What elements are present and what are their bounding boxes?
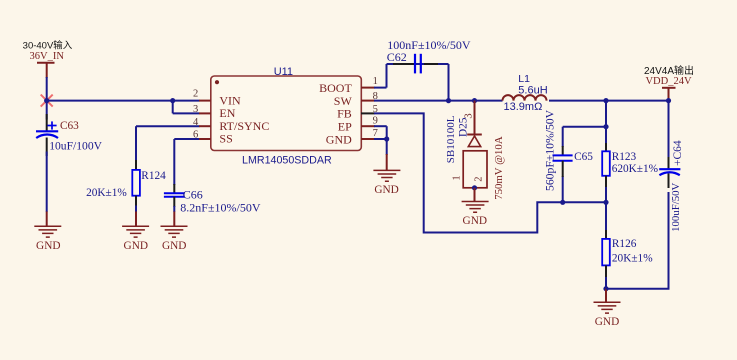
resistor R124 — [86, 160, 166, 207]
junction VIN/EN — [170, 98, 175, 103]
svg-text:D25: D25 — [458, 117, 470, 137]
svg-text:LMR14050SDDAR: LMR14050SDDAR — [242, 154, 332, 166]
junction D25 bottom — [472, 185, 477, 190]
junction C65 bottom — [560, 200, 565, 205]
junction VDD/C64 — [666, 98, 671, 103]
svg-text:3: 3 — [464, 113, 475, 118]
wire R126 chain — [605, 202, 607, 288]
svg-text:750mV @10A: 750mV @10A — [493, 136, 505, 200]
wire BOOT riser — [374, 64, 387, 88]
svg-text:2: 2 — [193, 89, 198, 100]
svg-text:R123: R123 — [612, 151, 637, 163]
pin 1 BOOT — [361, 76, 378, 88]
svg-text:560pF±10%/50V: 560pF±10%/50V — [544, 109, 557, 191]
wire R124 to ground — [135, 206, 137, 213]
pin 9 EP — [361, 116, 378, 127]
capacitor C64 — [659, 101, 684, 232]
ground GND (C66) — [161, 212, 188, 253]
wire main input horizontal — [47, 100, 200, 102]
ground GND (R124) — [122, 212, 149, 253]
svg-text:30-40V输入: 30-40V输入 — [23, 40, 73, 52]
pin 2 VIN — [193, 89, 211, 101]
svg-text:5.6uH: 5.6uH — [518, 85, 547, 97]
svg-text:C62: C62 — [387, 50, 407, 64]
IC U11 LMR14050SDDAR — [211, 66, 361, 167]
junction input X — [44, 98, 49, 103]
capacitor C66 — [164, 184, 261, 214]
svg-text:L1: L1 — [518, 73, 530, 85]
svg-text:U11: U11 — [274, 66, 293, 78]
svg-text:7: 7 — [373, 128, 378, 139]
no-ERC marker X — [41, 95, 53, 107]
junction D25/SW — [472, 98, 477, 103]
junction C65 top branch — [603, 124, 608, 129]
diode D25 SB10100L — [445, 101, 505, 200]
svg-text:100uF/50V: 100uF/50V — [670, 183, 682, 232]
wire C66 to ground — [173, 206, 175, 212]
svg-text:4: 4 — [193, 117, 199, 128]
pin 5 FB — [361, 104, 378, 115]
svg-text:GND: GND — [36, 240, 60, 252]
wire RT/SYNC to R124 — [136, 126, 200, 161]
inductor L1 — [503, 73, 548, 113]
svg-text:R126: R126 — [612, 238, 637, 250]
svg-text:C65: C65 — [574, 151, 593, 163]
pin 6 SS — [193, 130, 211, 141]
wire 36V_IN vertical — [46, 77, 48, 101]
junction C62/SW — [446, 98, 451, 103]
svg-text:SS: SS — [219, 132, 232, 146]
wire SW net — [374, 100, 669, 102]
svg-text:6: 6 — [193, 130, 198, 141]
svg-text:C66: C66 — [183, 187, 203, 201]
wire R123 chain — [605, 101, 607, 203]
svg-text:20K±1%: 20K±1% — [612, 252, 653, 264]
svg-text:GND: GND — [374, 184, 398, 196]
pin 8 SW — [361, 91, 378, 102]
resistor R123 — [602, 143, 658, 187]
svg-text:SB10100L: SB10100L — [445, 115, 457, 163]
svg-text:GND: GND — [124, 240, 148, 252]
svg-text:10uF/100V: 10uF/100V — [49, 140, 102, 153]
power port 36V_IN — [23, 40, 73, 79]
wire SS to C66 — [174, 139, 199, 185]
svg-text:GND: GND — [162, 240, 186, 252]
wire C64 bottom — [606, 192, 669, 289]
junction FB/R123/R126 — [603, 200, 608, 205]
svg-text:1: 1 — [373, 76, 378, 87]
ground GND (C63) — [34, 212, 61, 253]
svg-text:36V_IN: 36V_IN — [29, 51, 64, 62]
svg-text:8.2nF±10%/50V: 8.2nF±10%/50V — [180, 200, 261, 214]
svg-text:13.9mΩ: 13.9mΩ — [504, 101, 543, 113]
resistor R126 — [602, 230, 653, 277]
pin 3 EN — [193, 104, 211, 115]
wire C63 to ground — [46, 152, 48, 213]
pin 7 GND — [361, 128, 378, 139]
svg-text:BOOT: BOOT — [319, 81, 352, 95]
capacitor C62 — [387, 38, 471, 74]
svg-text:VDD_24V: VDD_24V — [645, 76, 691, 87]
svg-text:1: 1 — [451, 175, 462, 180]
wire EP riser — [374, 126, 387, 155]
svg-text:9: 9 — [373, 116, 378, 127]
svg-text:C63: C63 — [60, 120, 79, 132]
svg-text:GND: GND — [326, 132, 352, 146]
svg-text:GND: GND — [595, 316, 619, 328]
svg-text:20K±1%: 20K±1% — [86, 187, 127, 199]
pin 4 RT/SYNC — [193, 117, 211, 128]
junction EP/GND — [384, 136, 389, 141]
svg-text:R124: R124 — [141, 170, 166, 182]
ground GND (D25) — [462, 188, 489, 227]
power port VDD_24V — [644, 64, 694, 100]
capacitor C63 — [36, 101, 103, 156]
svg-text:620K±1%: 620K±1% — [612, 163, 659, 175]
wire C65 branch — [563, 127, 606, 203]
junction R126/C64 bottom — [603, 286, 608, 291]
wire EN branch — [173, 101, 200, 114]
ground GND (R126) — [594, 289, 621, 328]
wire C62 right riser — [448, 64, 450, 101]
svg-text:GND: GND — [463, 215, 487, 227]
svg-text:3: 3 — [193, 104, 198, 115]
svg-text:+C64: +C64 — [672, 140, 684, 166]
junction R123 top — [603, 98, 608, 103]
capacitor C65 — [544, 109, 594, 191]
ground GND (IC) — [373, 154, 400, 196]
svg-text:2: 2 — [473, 177, 484, 182]
wire FB net — [374, 113, 606, 232]
